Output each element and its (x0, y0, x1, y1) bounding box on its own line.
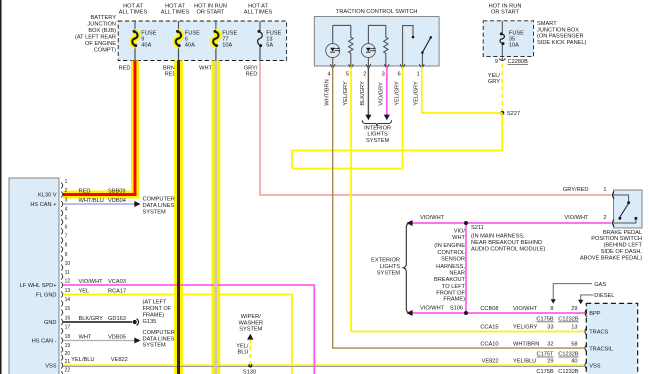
wire YEL/GRY jog down (291, 151, 293, 169)
svg-text:VSS: VSS (45, 364, 57, 370)
splice S130 (248, 364, 252, 368)
ground G135 label (143, 299, 172, 325)
svg-text:VIO/WHT: VIO/WHT (564, 215, 589, 221)
svg-text:VCA03: VCA03 (108, 279, 126, 285)
underbrace interior lights (362, 120, 391, 126)
connector labels C175B C1232B (536, 317, 579, 323)
svg-text:TO LEFT: TO LEFT (442, 284, 466, 290)
label VIO/WHT VCA03 (79, 279, 126, 285)
brake pedal position switch box (614, 190, 643, 228)
svg-text:9: 9 (495, 59, 498, 65)
label BLK/GRY GD163 (79, 316, 126, 322)
svg-text:COMPUTER: COMPUTER (143, 330, 175, 336)
svg-text:COMPT): COMPT) (94, 48, 116, 54)
svg-text:32: 32 (547, 341, 553, 347)
left box pin 16 (61, 315, 70, 325)
svg-text:SIDE OF DASH,: SIDE OF DASH, (601, 249, 643, 255)
svg-text:NEAR BREAKOUT BEHIND: NEAR BREAKOUT BEHIND (471, 240, 542, 246)
svg-text:CONTROL: CONTROL (437, 250, 465, 256)
svg-text:AUDIO CONTROL MODULE): AUDIO CONTROL MODULE) (471, 247, 545, 253)
svg-text:DIESEL: DIESEL (594, 293, 614, 299)
svg-text:TRACSIL: TRACSIL (589, 346, 613, 352)
svg-text:17: 17 (65, 324, 71, 330)
traction switch pin 3 (379, 64, 390, 105)
fuse F77 lead (215, 21, 217, 31)
wire YEL RCA17 pin13 (63, 295, 292, 374)
traction control switch box (314, 17, 439, 66)
left box pin 7 (61, 234, 68, 244)
svg-text:19: 19 (65, 343, 71, 349)
wire YEL/GRY pin1 to S227 (422, 67, 503, 114)
left connector box (9, 178, 59, 374)
wire RED SBB09 (yellow highlighted) fuse9 to pin2 (63, 61, 135, 195)
svg-text:VIO/WHT: VIO/WHT (513, 306, 538, 312)
svg-text:JUNCTION: JUNCTION (87, 22, 116, 28)
wire GRY/RED fuse13 to brake pedal switch pin1 (260, 61, 612, 196)
svg-text:11: 11 (65, 270, 70, 276)
traction switch pin 5 (343, 64, 354, 105)
wire BLK/GRY to interior lights (367, 67, 369, 116)
svg-text:2: 2 (603, 215, 606, 221)
svg-text:14: 14 (65, 297, 71, 303)
fuse F35 lead (501, 21, 503, 34)
svg-text:OF ENGINE: OF ENGINE (85, 41, 116, 47)
left box pin 8 (61, 243, 68, 253)
resistor R2 (pin 3 leg) (384, 25, 388, 66)
svg-text:BPP: BPP (589, 311, 601, 317)
left box pin 11 (61, 270, 70, 280)
wire VIO/WHT S106 row to BPP (411, 312, 584, 314)
svg-text:33: 33 (547, 325, 553, 331)
svg-text:VIO/GRY: VIO/GRY (379, 82, 385, 106)
connector labels C175B C1232B (536, 369, 579, 374)
svg-text:4: 4 (65, 207, 68, 213)
svg-text:3: 3 (65, 197, 68, 203)
VIO/WHT harness note (434, 228, 466, 302)
GAS pointer (551, 282, 607, 304)
svg-text:21: 21 (65, 359, 71, 365)
left box pin 4 (61, 207, 68, 217)
svg-text:VDB05: VDB05 (108, 334, 126, 340)
LED lamp 1 (pin 4 leg) (326, 25, 340, 66)
svg-text:40: 40 (571, 359, 577, 365)
left box pin 21 (61, 359, 70, 369)
splice S211 (464, 221, 468, 225)
wire VIO/WHT S211 row to brake pedal pin2 (411, 222, 612, 224)
svg-text:RCA17: RCA17 (108, 288, 126, 294)
svg-text:18: 18 (65, 334, 71, 340)
left box pin 13 (61, 288, 70, 298)
wire label BRN/RED (163, 66, 177, 78)
brake pedal pin 1 bracket (612, 191, 614, 198)
row labels CCA10 WHT/BRN (480, 341, 577, 347)
powertrain control module box (BPP/TRACS/TRACSIL/VSS) (586, 303, 637, 374)
switch blade (pin 1 leg) (421, 36, 432, 66)
svg-text:VIO/WHT: VIO/WHT (420, 215, 445, 221)
svg-text:HS CAN +: HS CAN + (30, 202, 57, 208)
svg-text:DATA LINES: DATA LINES (143, 203, 175, 209)
wire YEL/GRY pin5 down to TRACS (350, 67, 352, 332)
svg-text:6: 6 (397, 72, 400, 78)
svg-text:BLK/GRY: BLK/GRY (360, 81, 366, 106)
svg-text:WIPER/: WIPER/ (241, 314, 261, 320)
svg-text:RED: RED (79, 188, 91, 194)
S211 harness note (471, 225, 545, 252)
svg-text:CCA10: CCA10 (480, 341, 498, 347)
svg-text:(IN MAIN HARNESS,: (IN MAIN HARNESS, (471, 234, 525, 240)
svg-text:LIGHTS: LIGHTS (380, 264, 401, 270)
svg-text:OR START: OR START (197, 9, 226, 15)
svg-text:HOT IN RUN: HOT IN RUN (489, 3, 522, 9)
ground G135 symbol (133, 319, 139, 326)
wire YEL/GRY pin6 leg (402, 67, 404, 169)
svg-text:5: 5 (346, 72, 349, 78)
svg-text:KL30 V: KL30 V (38, 193, 57, 199)
svg-text:WASHER: WASHER (239, 320, 264, 326)
svg-text:YEL/GRY: YEL/GRY (414, 81, 420, 106)
left box pin 22 (61, 368, 70, 374)
exterior lights brace (402, 223, 410, 312)
svg-text:58: 58 (571, 341, 577, 347)
left box pin 12 (61, 278, 70, 288)
svg-text:DATA LINES: DATA LINES (143, 336, 175, 342)
svg-text:COMPUTER: COMPUTER (143, 197, 175, 203)
fuse F9 (132, 30, 137, 47)
svg-text:(AT LEFT: (AT LEFT (143, 299, 167, 305)
svg-text:HARNESS,: HARNESS, (436, 264, 465, 270)
wire WHT/BLU VDB04 pin3 (63, 203, 135, 205)
svg-text:GND: GND (44, 320, 57, 326)
svg-text:WHT: WHT (452, 235, 465, 241)
svg-text:C1232B: C1232B (558, 352, 579, 358)
svg-text:29: 29 (571, 306, 577, 312)
left box pin 18 (61, 334, 70, 344)
svg-text:YEL/GRY: YEL/GRY (343, 81, 349, 106)
left box pin 15 (61, 306, 70, 316)
resistor R1 (pin 5 leg) (349, 25, 353, 66)
connector labels C175T C1232B (537, 352, 579, 358)
svg-text:29: 29 (547, 359, 553, 365)
fuse F9 value label (141, 31, 156, 49)
svg-text:5: 5 (65, 216, 68, 222)
battery junction box BJB (118, 21, 286, 61)
svg-text:13: 13 (65, 288, 71, 294)
svg-text:40A: 40A (141, 43, 151, 49)
traction switch pin 6 (394, 64, 405, 105)
fuse F77 value label (222, 31, 237, 49)
module pin BPP bracket (585, 309, 587, 317)
svg-text:C175B: C175B (536, 317, 553, 323)
fuse F77 (213, 30, 218, 47)
left box pin 5 (61, 216, 68, 226)
svg-text:OR START: OR START (491, 10, 520, 16)
left box pin 14 (61, 297, 70, 307)
svg-text:SYSTEM: SYSTEM (377, 271, 400, 277)
left box pin 3 (61, 197, 68, 207)
svg-text:LIGHTS: LIGHTS (367, 132, 388, 138)
svg-text:NEAR: NEAR (449, 271, 465, 277)
wire WHT VDB05 pin18 (63, 340, 135, 342)
exterior lights system text (371, 258, 400, 277)
svg-text:C175B: C175B (536, 369, 553, 374)
svg-text:22: 22 (65, 368, 71, 374)
splice S106 (464, 311, 468, 315)
fuse F6 lead (178, 21, 180, 31)
svg-text:40A: 40A (185, 43, 195, 49)
left box pin 2 (61, 188, 68, 198)
fuse F35 value label (509, 31, 524, 49)
arrow exterior lights (bottom) (406, 310, 412, 316)
splice S227 (500, 111, 504, 115)
wire BRN/RED core (over crossings) (177, 61, 180, 374)
svg-text:(IN ENGINE: (IN ENGINE (434, 243, 465, 249)
label RED SBB09 (79, 188, 126, 194)
svg-text:S106: S106 (450, 305, 463, 311)
svg-text:SYSTEM: SYSTEM (366, 138, 389, 144)
svg-text:(BEHIND LEFT: (BEHIND LEFT (603, 243, 642, 249)
svg-text:VSS: VSS (589, 364, 601, 370)
svg-text:CCB08: CCB08 (480, 306, 498, 312)
smart junction box label (537, 21, 587, 46)
left box pin 17 (61, 324, 70, 334)
left box pin 6 (61, 225, 68, 235)
svg-text:16: 16 (65, 315, 71, 321)
svg-text:BRAKE PEDAL: BRAKE PEDAL (603, 230, 642, 236)
dashed wire YEL/BLU to wiper/washer (249, 338, 251, 366)
svg-text:YEL/GRY: YEL/GRY (394, 81, 400, 106)
page edge line (0, 0, 2, 374)
svg-text:9: 9 (65, 252, 68, 258)
svg-text:BOX (BJB): BOX (BJB) (88, 28, 116, 34)
svg-text:SIDE KICK PANEL): SIDE KICK PANEL) (537, 40, 587, 46)
svg-text:8: 8 (550, 306, 553, 312)
switch fixed contact (pin 6 leg) (403, 26, 415, 66)
smart junction box (483, 21, 533, 57)
svg-text:10A: 10A (222, 43, 232, 49)
svg-text:VIO/WHT: VIO/WHT (79, 279, 104, 285)
svg-text:7: 7 (65, 234, 68, 240)
svg-text:VE822: VE822 (111, 357, 128, 363)
svg-text:(ON PASSENGER: (ON PASSENGER (537, 34, 584, 40)
svg-text:FRAME): FRAME) (143, 313, 165, 319)
computer data lines system text (pin3) (143, 197, 175, 216)
svg-text:SYSTEM: SYSTEM (239, 327, 262, 333)
svg-text:ALL TIMES: ALL TIMES (244, 9, 273, 15)
label YEL RCA17 (79, 288, 127, 294)
fuse F35 (500, 32, 505, 45)
brake switch blade (618, 204, 628, 220)
svg-text:SBB09: SBB09 (108, 188, 126, 194)
svg-text:VIO/: VIO/ (454, 228, 466, 234)
svg-text:WHT/BRN: WHT/BRN (325, 79, 331, 105)
dashed wire YEL/GRY from C2280B to S227 (501, 64, 503, 113)
svg-text:4: 4 (328, 72, 331, 78)
svg-text:SMART: SMART (537, 21, 557, 27)
row labels CCA15 YEL/GRY (480, 325, 577, 331)
svg-text:S130: S130 (243, 369, 256, 374)
traction switch pin 1 (414, 64, 425, 105)
svg-text:2: 2 (363, 72, 366, 78)
svg-text:BREAKOUT: BREAKOUT (434, 277, 466, 283)
svg-text:YEL/BLU: YEL/BLU (71, 357, 94, 363)
left box pin 9 (61, 252, 68, 262)
svg-text:3: 3 (382, 72, 385, 78)
wire BLK/GRY GD163 pin16 (63, 321, 132, 323)
svg-text:1: 1 (417, 72, 420, 78)
svg-text:FRONT OF: FRONT OF (143, 306, 172, 312)
LED lamp 2 (pin 2 leg) (361, 25, 375, 66)
wire WHT (yellow highlighted) fuse77 down (211, 61, 220, 374)
brake switch contact from pin2 (614, 217, 637, 223)
battery junction box label (75, 15, 116, 54)
left box pin 19 (61, 343, 70, 353)
svg-text:WHT: WHT (199, 66, 212, 72)
svg-text:VE822: VE822 (482, 359, 499, 365)
fuse F13 value label (266, 31, 281, 49)
fuse F6 (176, 30, 181, 47)
wire BRN/RED (yellow highlighted) fuse6 down (174, 61, 183, 374)
svg-text:GRY: GRY (488, 79, 500, 85)
hot-at label (194, 4, 227, 16)
wire CCA15 YEL/GRY TRACS row (351, 331, 584, 333)
svg-text:INTERIOR: INTERIOR (364, 125, 391, 131)
svg-text:5A: 5A (266, 43, 273, 49)
left box pin 20 (61, 351, 70, 361)
interior lights system text (364, 125, 391, 143)
svg-text:12: 12 (65, 278, 71, 284)
wire YEL/GRY jog to pin6 (292, 168, 403, 170)
arrow exterior lights (top) (406, 220, 412, 226)
wire VIO/WHT S211 to S106 (465, 223, 467, 313)
left box pin 1 (61, 179, 68, 189)
svg-text:13: 13 (571, 325, 577, 331)
wire VIO/GRY to interior lights (386, 67, 388, 116)
svg-text:WHT/BRN: WHT/BRN (513, 341, 539, 347)
svg-text:VDB04: VDB04 (108, 198, 126, 204)
computer data lines system text (pin18) (143, 330, 175, 349)
svg-text:10: 10 (65, 261, 71, 267)
svg-text:BATTERY: BATTERY (91, 15, 117, 21)
svg-text:FRAME): FRAME) (443, 297, 465, 303)
hot-at label (119, 4, 148, 16)
svg-text:6: 6 (65, 225, 68, 231)
wiper/washer system text (239, 314, 264, 333)
brake switch contact from pin1 (614, 195, 630, 204)
svg-text:EXTERIOR: EXTERIOR (371, 258, 400, 264)
svg-text:FL GND: FL GND (36, 293, 56, 299)
top bar LED2-R2 (368, 24, 385, 26)
svg-text:LF WHL SPD+: LF WHL SPD+ (20, 283, 58, 289)
label YEL/BLU VE822 (71, 357, 127, 363)
svg-text:BLU: BLU (238, 350, 249, 356)
svg-text:YEL/: YEL/ (488, 73, 501, 79)
svg-text:CCA15: CCA15 (480, 325, 498, 331)
svg-text:JUNCTION BOX: JUNCTION BOX (537, 27, 579, 33)
svg-text:WHT: WHT (79, 334, 92, 340)
svg-text:10A: 10A (509, 43, 519, 49)
svg-text:C1232B: C1232B (558, 317, 579, 323)
svg-text:YEL: YEL (79, 288, 90, 294)
fuse F13 (258, 30, 263, 47)
svg-text:YEL/BLU: YEL/BLU (513, 359, 536, 365)
traction switch pin 4 (325, 64, 336, 105)
svg-text:20: 20 (65, 351, 71, 357)
svg-text:15: 15 (65, 306, 71, 312)
fuse F13 lead (259, 21, 261, 31)
row labels CCB08 VIO/WHT (480, 306, 577, 312)
svg-text:G135: G135 (143, 319, 157, 325)
svg-text:VIO/WHT: VIO/WHT (420, 305, 445, 311)
svg-text:8: 8 (65, 243, 68, 249)
hot-at label (244, 4, 273, 16)
svg-text:S227: S227 (507, 111, 520, 117)
wire label GRY/RED (244, 66, 258, 78)
label YEL/BLU (wiper branch) (236, 344, 249, 356)
svg-text:1: 1 (603, 187, 606, 193)
svg-text:SENSOR: SENSOR (441, 257, 465, 263)
svg-text:SYSTEM: SYSTEM (143, 343, 166, 349)
svg-text:S211: S211 (471, 225, 484, 231)
wire YEL/BLU VE822 pin21 to VSS (63, 364, 584, 366)
arrow to wiper/washer system (247, 334, 253, 340)
svg-text:(AT LEFT REAR: (AT LEFT REAR (75, 35, 116, 41)
svg-text:BLK/GRY: BLK/GRY (79, 316, 104, 322)
svg-text:YEL/GRY: YEL/GRY (513, 325, 538, 331)
arrow to computer data lines (pin18) (134, 338, 140, 344)
svg-text:ALL TIMES: ALL TIMES (119, 9, 148, 15)
row labels VE822 YEL/BLU (482, 359, 578, 365)
svg-text:SYSTEM: SYSTEM (143, 209, 166, 215)
left box pin 10 (61, 261, 70, 271)
top bar LED1-R1 (333, 24, 351, 26)
arrow to computer data lines (pin3) (134, 201, 140, 207)
module pin TRACSIL bracket (585, 344, 587, 352)
svg-text:ALL TIMES: ALL TIMES (161, 9, 190, 15)
svg-text:TRACS: TRACS (589, 330, 608, 336)
fuse F9 lead (134, 21, 136, 31)
svg-text:C2280B: C2280B (508, 59, 529, 65)
wire WHT/BRN pin4 to TRACSIL (333, 67, 584, 349)
wire VIO/WHT VCA03 pin12 (63, 285, 314, 374)
brake pedal position switch label (580, 230, 643, 262)
svg-text:FRONT OF: FRONT OF (436, 291, 465, 297)
wire YEL/GRY branch S227 to jog (292, 150, 502, 152)
svg-text:2: 2 (65, 188, 68, 194)
svg-text:TRACTION CONTROL SWITCH: TRACTION CONTROL SWITCH (336, 9, 418, 15)
brake pedal pin 2 bracket (612, 219, 614, 226)
wire WHT core (over crossings) (215, 61, 217, 374)
svg-text:ABOVE BRAKE PEDAL): ABOVE BRAKE PEDAL) (580, 255, 642, 261)
svg-text:1: 1 (65, 179, 68, 185)
wire YEL/GRY S227 down (501, 113, 503, 151)
svg-text:POSITION SWITCH: POSITION SWITCH (591, 236, 642, 242)
svg-text:WHT/BLU: WHT/BLU (79, 198, 104, 204)
svg-text:C1232B: C1232B (558, 369, 579, 374)
wire VIO/WHT VCA03 vertical (over crossings) (313, 285, 315, 374)
hot-at label (161, 4, 190, 16)
svg-text:GD163: GD163 (108, 316, 126, 322)
svg-text:RED: RED (246, 72, 258, 78)
SJB pin 9 bracket (495, 59, 506, 65)
traction switch pin 2 (360, 64, 371, 105)
fuse F6 value label (185, 31, 200, 49)
svg-text:GAS: GAS (594, 282, 606, 288)
wire YEL/BLU VE822 blue stripe (63, 366, 584, 368)
module pin VSS bracket (585, 362, 587, 370)
svg-text:C175T: C175T (537, 352, 554, 358)
hot in run or start label (SJB) (489, 3, 522, 15)
label WHT VDB05 (79, 334, 126, 340)
